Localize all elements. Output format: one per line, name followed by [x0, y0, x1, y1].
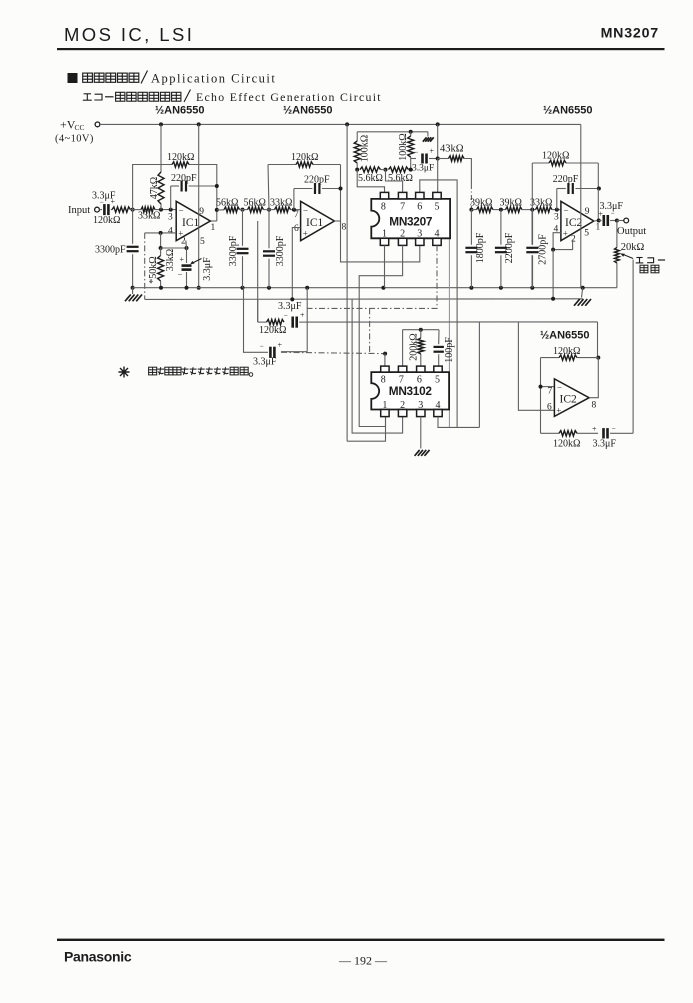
svg-text:7: 7 [294, 210, 299, 220]
svg-text:−: − [284, 311, 288, 320]
wire pin7 MN3207 feed [386, 170, 403, 193]
resistor 120k feedback IC2b [541, 357, 560, 359]
svg-text:2: 2 [400, 229, 405, 240]
svg-text:½AN6550: ½AN6550 [540, 330, 590, 342]
svg-text:33kΩ: 33kΩ [270, 197, 292, 208]
svg-text:CC: CC [75, 123, 85, 132]
svg-text:−: − [100, 198, 104, 207]
svg-text:3300pF: 3300pF [275, 235, 286, 266]
wire V+ vertical through IC1a (pin9/pin5) [198, 124, 200, 287]
wire pin2 MN3207 long feedback [359, 245, 402, 426]
svg-text:MN3207: MN3207 [389, 214, 433, 228]
svg-text:47kΩ: 47kΩ [149, 177, 160, 199]
wire IC2b output riser [597, 322, 599, 358]
wire 43k to signal row [464, 159, 471, 185]
svg-text:120kΩ: 120kΩ [93, 215, 120, 226]
wire echo branch vertical [478, 322, 480, 428]
svg-text:43kΩ: 43kΩ [440, 144, 464, 155]
svg-text:Output: Output [617, 226, 646, 237]
resistor 33k series input [141, 207, 155, 212]
svg-text:2200pF: 2200pF [504, 232, 515, 263]
footer rule [57, 939, 665, 941]
wire V+ vertical through IC2a [580, 124, 582, 287]
svg-text:— 192 —: — 192 — [338, 954, 388, 968]
svg-text:220pF: 220pF [553, 174, 579, 185]
wire pin8 MN3207 feed [357, 170, 384, 193]
wire pin4 bias IC2a [553, 233, 561, 250]
svg-text:Echo Effect Generation Circ: Echo Effect Generation Circuit [196, 90, 382, 104]
op-amp IC1b [301, 201, 335, 240]
resistor 100k right vertical [410, 132, 412, 136]
capacitor 3.3uF bypass electrolytic IC1a [186, 248, 188, 263]
resistor 33k series stage2 [275, 207, 291, 212]
svg-text:MN3207: MN3207 [601, 26, 659, 42]
section title Japanese 応用回路例 [83, 73, 93, 82]
wire stage2 mystery vertical [257, 221, 259, 322]
svg-text:8: 8 [381, 202, 386, 213]
svg-text:2: 2 [571, 235, 576, 245]
svg-text:3300pF: 3300pF [95, 245, 126, 256]
svg-text:+: + [111, 197, 116, 206]
svg-text:2: 2 [400, 400, 405, 411]
resistor 50k preset / 33k bias vertical [160, 248, 162, 256]
svg-text:39kΩ: 39kΩ [500, 197, 522, 208]
wire Vcc decoupling vertical [437, 124, 439, 158]
svg-text:+: + [556, 406, 561, 416]
svg-text:7: 7 [548, 387, 553, 397]
svg-text:1: 1 [382, 400, 387, 411]
svg-text:3300pF: 3300pF [228, 235, 239, 266]
svg-text:33kΩ: 33kΩ [138, 211, 160, 222]
resistor 5.6k A [360, 167, 381, 172]
node A input junction [131, 208, 135, 212]
capacitor 3.3uF echo feedback electrolytic [577, 432, 598, 434]
svg-text:9: 9 [199, 207, 204, 217]
resistor 39k B [506, 207, 523, 212]
svg-text:5: 5 [584, 229, 589, 239]
capacitor 220pF feedback IC1a [170, 186, 172, 210]
ground symbol MN3102 [415, 450, 420, 456]
op-amp IC1a [176, 201, 210, 240]
svg-text:+: + [303, 229, 308, 239]
capacitor 3.3uF echo-return electrolytic [269, 347, 272, 358]
svg-text:3.3μF: 3.3μF [253, 357, 277, 368]
capacitor 3.3uF input electrolytic [99, 209, 102, 211]
svg-text:IC2: IC2 [560, 394, 578, 406]
svg-text:33kΩ: 33kΩ [165, 249, 176, 271]
svg-text:1: 1 [596, 223, 601, 233]
capacitor 3.3uF decoupling electrolytic [411, 158, 416, 160]
output terminal [617, 220, 624, 222]
svg-text:MN3102: MN3102 [389, 384, 433, 398]
node stage2 A [241, 208, 245, 212]
svg-text:7: 7 [399, 374, 404, 385]
resistor 120k feedback IC1b [296, 162, 313, 167]
svg-text:5: 5 [435, 202, 440, 213]
svg-text:IC1: IC1 [182, 217, 200, 229]
subtitle Japanese エコー効果発生回路 [83, 94, 92, 100]
svg-text:−: − [557, 383, 562, 393]
svg-text:200kΩ: 200kΩ [408, 333, 419, 360]
resistor 56k series A [224, 207, 240, 212]
svg-text:1: 1 [382, 229, 387, 240]
IC MN3207 body [371, 199, 450, 238]
IC MN3207 pins top [380, 192, 388, 199]
capacitor 2200pF shunt [500, 210, 502, 245]
op-amp IC2b [554, 379, 589, 417]
svg-text:120kΩ: 120kΩ [553, 439, 580, 450]
IC MN3102 body [371, 372, 449, 409]
node stage3 A [499, 208, 503, 212]
wire pin6 MN3207 feed [420, 180, 457, 428]
IC MN3102 pins top [381, 366, 389, 372]
svg-text:+: + [592, 425, 597, 434]
ground symbol main left [132, 288, 134, 294]
node stage3 row left [469, 208, 473, 212]
svg-text:56kΩ: 56kΩ [216, 197, 238, 208]
wire pin2 to bypass cap [185, 241, 188, 249]
svg-text:3.3μF: 3.3μF [202, 257, 213, 281]
wire MN3102 pin3 to ground [420, 417, 422, 449]
wire bias node vertical [160, 233, 162, 248]
ground symbol IC2a [582, 288, 583, 298]
footnote asterisk [119, 367, 130, 378]
svg-text:3: 3 [554, 213, 559, 223]
resistor 43k [438, 158, 449, 160]
wire MN3102 pin8 riser [384, 354, 386, 367]
capacitor 100pF clock [438, 330, 440, 345]
svg-text:120kΩ: 120kΩ [542, 151, 569, 162]
svg-text:33kΩ: 33kΩ [530, 197, 552, 208]
svg-text:IC2: IC2 [565, 217, 583, 229]
svg-text:+V: +V [60, 118, 76, 132]
svg-text:½AN6550: ½AN6550 [283, 105, 333, 117]
feedback loop wire 120k IC1a [133, 165, 172, 210]
wire input row to op-amp [131, 209, 142, 211]
svg-text:56kΩ: 56kΩ [244, 197, 266, 208]
svg-text:100kΩ: 100kΩ [360, 135, 371, 162]
section marker square [68, 73, 78, 83]
svg-text:+: + [430, 147, 435, 156]
pointer arrow to 3.3uF [192, 259, 202, 264]
svg-text:−: − [179, 206, 184, 216]
resistor 33k stage3 [536, 207, 553, 212]
svg-text:3: 3 [168, 213, 173, 223]
wire IC1b output to MN3207 pin3 [341, 221, 420, 262]
footnote text [149, 367, 157, 375]
svg-text:−: − [260, 342, 264, 351]
wire row D dashed to MN3102 pin8 [281, 352, 385, 353]
svg-text:6: 6 [417, 202, 422, 213]
svg-text:39kΩ: 39kΩ [470, 197, 492, 208]
svg-text:IC1: IC1 [306, 217, 324, 229]
input terminal [95, 207, 100, 212]
capacitor 3.3uF output electrolytic [599, 220, 602, 222]
wire ground rail to row D riser [306, 288, 308, 352]
svg-text:5.6kΩ: 5.6kΩ [388, 173, 413, 184]
wire pin6 IC1b to row B [292, 228, 300, 300]
svg-text:2700pF: 2700pF [538, 234, 549, 265]
resistor 120k input [112, 207, 131, 212]
node stage2 B [267, 208, 271, 212]
wire echo pot wiper to IC2b loop [632, 260, 634, 434]
svg-text:6: 6 [417, 374, 422, 385]
capacitor 220pF feedback IC1b [293, 189, 295, 210]
wire row B riser to 120k/3.3uF [257, 299, 259, 322]
wire op-amp1 output row [210, 220, 217, 222]
svg-text:−: − [178, 270, 183, 280]
potentiometer 20k echo level [616, 221, 618, 248]
svg-text:20kΩ: 20kΩ [621, 242, 645, 253]
svg-text:100pF: 100pF [444, 337, 455, 363]
svg-text:−: − [612, 424, 616, 433]
svg-text:7: 7 [400, 202, 405, 213]
wire MN3102 pin4 to clock feed [438, 417, 479, 428]
svg-text:Panasonic: Panasonic [64, 949, 132, 965]
wire pin4 down-feed dashed [144, 233, 146, 300]
feedback loop wire 120k IC1b [268, 165, 269, 210]
ground rail junction dots [159, 286, 163, 290]
resistor 200k clock [420, 330, 422, 338]
svg-text:(4~10V): (4~10V) [55, 134, 94, 145]
svg-text:220pF: 220pF [171, 173, 197, 184]
header rule [57, 48, 665, 50]
resistor 5.6k B [389, 167, 409, 172]
svg-text:3.3μF: 3.3μF [593, 439, 617, 450]
IC MN3207 pins bottom [380, 238, 388, 245]
wire IC2b output to feedback [589, 358, 598, 398]
wire bottom link row [347, 417, 385, 442]
capacitor 3300pF shunt B [268, 210, 270, 249]
feedback loop wire 120k IC2a [531, 163, 533, 210]
wire row C to IC2b [307, 321, 597, 323]
svg-text:8: 8 [381, 374, 386, 385]
label echo adjust [636, 258, 644, 263]
ground rail wire [133, 287, 617, 289]
capacitor 3300pF input shunt [132, 210, 134, 244]
capacitor 2700pF shunt [531, 210, 533, 245]
wire long vertical Vcc to MN3102 area [346, 124, 348, 441]
svg-text:6: 6 [547, 403, 552, 413]
svg-text:Input: Input [68, 205, 90, 216]
wire row D to second electrolytic [281, 351, 307, 353]
svg-text:3.3μF: 3.3μF [412, 164, 434, 174]
capacitor 1800pF shunt [470, 210, 472, 245]
wire MN3102 top network [403, 329, 439, 331]
svg-text:5: 5 [435, 374, 440, 385]
svg-text:5.6kΩ: 5.6kΩ [358, 173, 383, 184]
lower feedback rail wire (row B) [145, 298, 583, 301]
svg-text:+: + [599, 210, 604, 219]
wire row C riser to pin6 IC2b [518, 322, 554, 410]
wire pin2 stub IC2a [553, 240, 573, 250]
svg-text:4: 4 [436, 400, 441, 411]
wire pin4 MN3207 dashed [307, 245, 437, 308]
wire IC2b feedback left vertical [540, 358, 542, 434]
svg-text:8: 8 [592, 401, 597, 411]
wire IC2a bias to row B [552, 250, 554, 299]
svg-text:Application Circuit: Application Circuit [151, 72, 276, 86]
resistor 39k A [477, 207, 494, 212]
capacitor 3.3uF feedback electrolytic [291, 317, 294, 328]
svg-text:*50kΩ: *50kΩ [148, 256, 159, 283]
svg-text:½AN6550: ½AN6550 [155, 105, 205, 117]
wire row B to MN3102 pin2 [352, 299, 403, 433]
svg-text:−: − [414, 148, 418, 157]
svg-text:2: 2 [181, 237, 186, 247]
svg-text:−: − [611, 209, 615, 218]
svg-text:5: 5 [200, 237, 205, 247]
wire pin5 MN3207 feed [442, 198, 450, 200]
svg-text:3.3μF: 3.3μF [278, 301, 302, 312]
wire pin4 bias row IC1a [145, 232, 177, 234]
svg-text:MOS IC, LSI: MOS IC, LSI [64, 24, 194, 45]
wire top bias line MN3207 [357, 131, 428, 133]
resistor 47k bias vertical [160, 124, 162, 172]
wire pin7 IC2b [541, 386, 555, 388]
capacitor 220pF feedback IC2a [556, 189, 558, 210]
svg-text:4: 4 [435, 229, 440, 240]
resistor 56k series B [248, 207, 264, 212]
svg-text:+: + [563, 229, 568, 239]
svg-text:3: 3 [418, 400, 423, 411]
node 5.6k mid [384, 168, 388, 172]
node 5.6k row left [355, 168, 359, 172]
wire op-amp IC1b output [334, 220, 340, 222]
svg-text:3: 3 [417, 229, 422, 240]
svg-text:+: + [180, 255, 185, 264]
svg-text:120kΩ: 120kΩ [291, 152, 318, 163]
resistor 120k feedback IC1a [172, 162, 189, 167]
svg-text:−: − [564, 206, 569, 216]
svg-text:100kΩ: 100kΩ [398, 133, 409, 160]
resistor 120k feedback IC2a [549, 160, 566, 165]
svg-text:+: + [278, 341, 283, 350]
op-amp IC2a [561, 201, 594, 240]
svg-text:120kΩ: 120kΩ [259, 325, 286, 336]
svg-text:1800pF: 1800pF [475, 232, 486, 263]
resistor 100k left vertical [356, 132, 358, 141]
resistor 120k feedback return [258, 321, 267, 323]
node stage3 B [530, 208, 534, 212]
svg-text:120kΩ: 120kΩ [167, 152, 194, 163]
wire clock stub dashed [369, 308, 371, 353]
wire pin1 MN3207 to ground rail [384, 245, 386, 287]
svg-text:−: − [303, 206, 308, 216]
ground symbol top small [427, 132, 429, 137]
power rail wire [100, 123, 581, 125]
svg-text:6: 6 [294, 224, 299, 234]
svg-text:4: 4 [168, 227, 173, 237]
wire row D left leg [244, 288, 263, 353]
svg-text:220pF: 220pF [304, 175, 330, 186]
svg-text:120kΩ: 120kΩ [553, 346, 580, 357]
svg-text:8: 8 [342, 223, 347, 233]
svg-text:9: 9 [585, 207, 590, 217]
power rail junction dots [159, 122, 163, 126]
IC MN3102 pins bottom [381, 410, 389, 417]
svg-text:1: 1 [211, 223, 216, 233]
resistor 120k echo feedback bottom [541, 432, 560, 434]
capacitor 3300pF shunt A [242, 210, 244, 246]
svg-text:½AN6550: ½AN6550 [543, 105, 593, 117]
wire IC2a output [594, 220, 599, 223]
pot wiper arrow [622, 254, 634, 259]
